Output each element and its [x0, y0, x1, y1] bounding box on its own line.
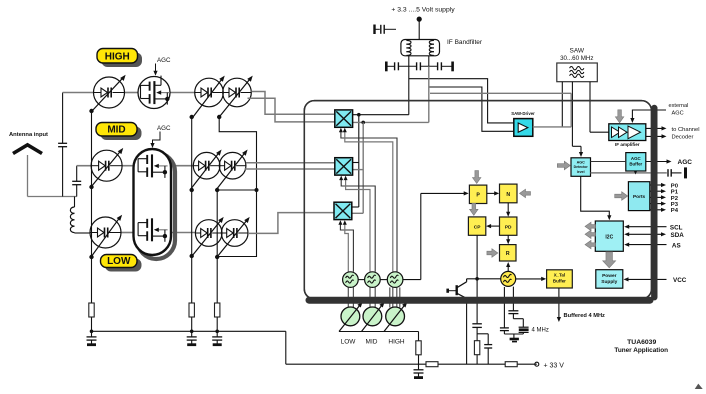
svg-text:I2C: I2C — [605, 235, 613, 241]
svg-text:MID: MID — [107, 125, 125, 136]
svg-text:AGC: AGC — [157, 125, 171, 132]
svg-text:level: level — [577, 170, 585, 174]
svg-text:IF Bandfilter: IF Bandfilter — [447, 39, 483, 46]
svg-text:Antenna input: Antenna input — [9, 132, 48, 138]
svg-text:LOW: LOW — [341, 339, 357, 346]
svg-text:Power: Power — [602, 273, 617, 279]
svg-text:P3: P3 — [671, 202, 679, 208]
svg-text:TUA6039: TUA6039 — [627, 339, 656, 346]
svg-text:Supply: Supply — [601, 279, 617, 285]
svg-text:AS: AS — [672, 242, 681, 249]
svg-text:+ 33 V: + 33 V — [544, 362, 565, 369]
svg-text:AGC: AGC — [678, 159, 693, 166]
svg-text:N: N — [506, 192, 510, 198]
svg-text:SDA: SDA — [671, 232, 685, 239]
svg-text:AGC: AGC — [672, 111, 684, 117]
svg-text:SAW: SAW — [570, 47, 585, 54]
svg-text:X_Tal: X_Tal — [554, 273, 565, 278]
svg-text:VCC: VCC — [673, 277, 687, 284]
svg-text:+ 3.3 ....5 Volt supply: + 3.3 ....5 Volt supply — [391, 7, 455, 14]
svg-text:Decoder: Decoder — [672, 135, 694, 141]
svg-text:Tuner Application: Tuner Application — [614, 347, 668, 354]
svg-text:Buffer: Buffer — [553, 279, 566, 284]
svg-text:SCL: SCL — [670, 224, 683, 231]
svg-text:IF amplifier: IF amplifier — [615, 142, 640, 147]
svg-text:P2: P2 — [671, 196, 679, 202]
svg-text:PD: PD — [505, 225, 512, 231]
svg-text:HIGH: HIGH — [388, 339, 405, 346]
svg-text:Detector: Detector — [574, 165, 589, 169]
svg-text:P0: P0 — [671, 183, 679, 189]
svg-text:AGC: AGC — [631, 156, 642, 161]
svg-text:Ports: Ports — [633, 194, 646, 200]
svg-text:MID: MID — [366, 339, 378, 346]
svg-text:Buffered 4 MHz: Buffered 4 MHz — [564, 313, 606, 319]
svg-text:P: P — [476, 193, 480, 199]
svg-text:AGC: AGC — [577, 161, 586, 165]
svg-text:external: external — [669, 103, 689, 109]
svg-text:to Channel: to Channel — [672, 127, 700, 133]
svg-text:30...60 MHz: 30...60 MHz — [560, 55, 593, 62]
svg-text:AGC: AGC — [157, 57, 171, 64]
svg-text:P1: P1 — [671, 190, 679, 196]
svg-text:HIGH: HIGH — [105, 52, 130, 63]
svg-text:SAW-Driver: SAW-Driver — [511, 111, 535, 116]
svg-text:R: R — [506, 251, 510, 257]
svg-text:P4: P4 — [671, 208, 679, 214]
svg-text:Buffer: Buffer — [629, 162, 642, 167]
svg-text:LOW: LOW — [107, 256, 131, 267]
svg-text:4 MHz: 4 MHz — [532, 328, 549, 334]
svg-text:CP: CP — [474, 225, 481, 231]
